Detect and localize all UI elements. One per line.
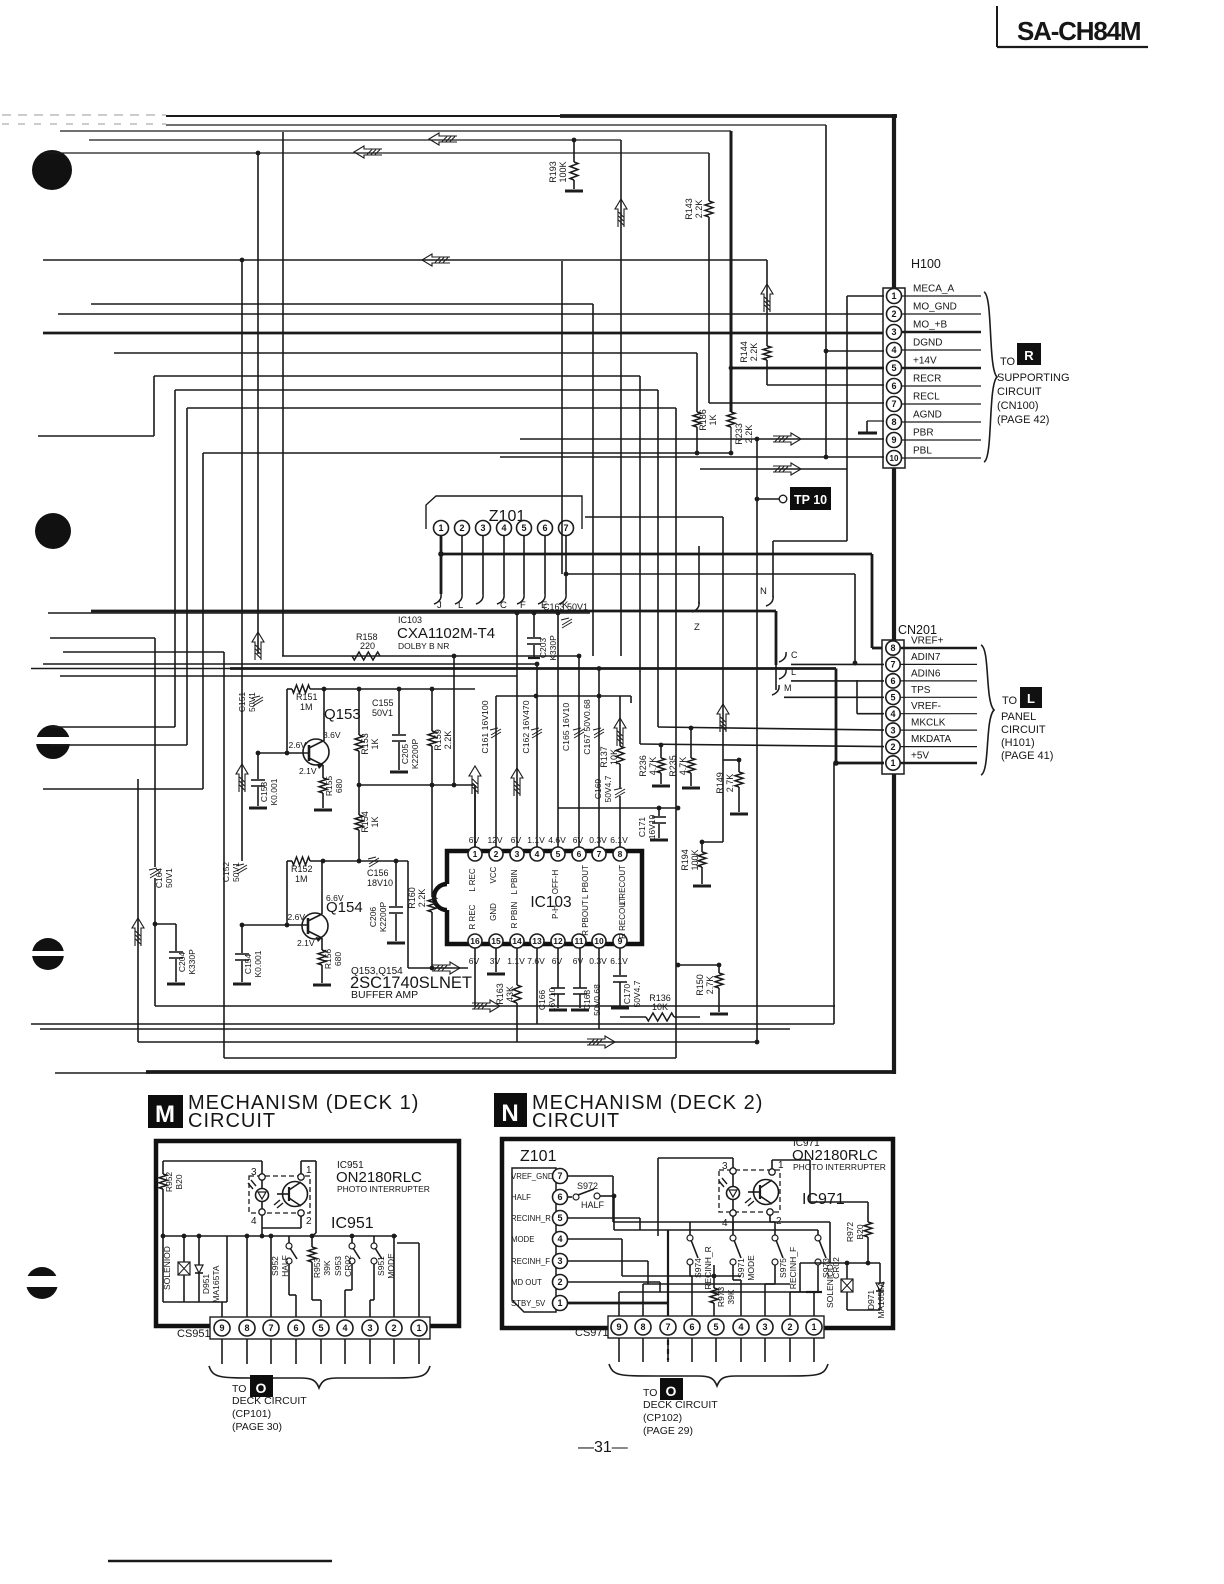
svg-text:43K: 43K (505, 986, 515, 1002)
resistor R953 (308, 1234, 332, 1317)
wire DGND feed (824, 349, 884, 354)
svg-text:PBL: PBL (913, 446, 932, 457)
svg-text:1.1V: 1.1V (507, 956, 525, 966)
section label M (148, 1092, 419, 1132)
svg-text:7.6V: 7.6V (527, 956, 545, 966)
IC103 pin 4 (527, 835, 545, 861)
resistor R153 (355, 689, 380, 787)
svg-text:IC103: IC103 (398, 615, 422, 625)
CS971 pin 6 (684, 1319, 700, 1362)
svg-text:R152: R152 (291, 864, 313, 874)
resistor (687, 758, 695, 773)
ground (233, 983, 251, 986)
signal arrow (773, 433, 801, 445)
H100 pin 7 (887, 392, 982, 412)
svg-text:RECINH_R: RECINH_R (703, 1246, 713, 1289)
svg-text:TPS: TPS (911, 685, 931, 696)
svg-text:1: 1 (557, 1298, 562, 1308)
svg-text:S951: S951 (376, 1256, 386, 1276)
capacitor C152 (221, 862, 247, 883)
IC971 pin 1 (769, 1160, 810, 1202)
resistor (710, 1288, 718, 1303)
capacitor C205 (392, 689, 420, 770)
resistor (864, 1222, 872, 1237)
resistor R150 (676, 963, 723, 1012)
svg-text:3.6V: 3.6V (323, 730, 341, 740)
svg-text:IC971: IC971 (802, 1191, 845, 1208)
ground (565, 190, 583, 193)
wire hook (692, 602, 699, 612)
H100 pin 9 (887, 428, 982, 448)
svg-text:B20: B20 (174, 1174, 184, 1189)
polarity mark (236, 864, 247, 874)
capacitor (652, 817, 666, 823)
svg-text:RECINH_R: RECINH_R (511, 1214, 551, 1223)
Z101 pin 7 (559, 521, 574, 536)
signal arrow (469, 766, 481, 794)
solenoid SOLENIOD (N) (825, 1263, 853, 1310)
svg-text:10K: 10K (609, 749, 619, 765)
svg-text:2: 2 (459, 523, 464, 533)
svg-text:SA-CH84M: SA-CH84M (1017, 16, 1140, 46)
svg-text:MODE: MODE (511, 1235, 534, 1244)
wire hook (779, 652, 786, 662)
label TO L PANEL CIRCUIT (1001, 687, 1053, 762)
svg-text:3: 3 (557, 1256, 562, 1266)
registration mark 1 (32, 150, 72, 190)
section label N (494, 1092, 763, 1132)
svg-text:7: 7 (557, 1171, 562, 1181)
IC103 pin 1 (468, 835, 482, 861)
svg-text:R RECOUT: R RECOUT (618, 897, 627, 939)
polarity mark (149, 868, 160, 878)
resistor R158 (352, 632, 380, 660)
svg-text:3: 3 (251, 1167, 257, 1178)
svg-text:16: 16 (470, 936, 480, 946)
svg-text:S953: S953 (333, 1256, 343, 1276)
svg-text:TP 10: TP 10 (794, 493, 827, 507)
label TO R SUPPORTING CIRCUIT (997, 343, 1070, 426)
CS951 pin 1 (411, 1320, 427, 1364)
signal arrow (761, 284, 773, 312)
brace CS951 (209, 1366, 430, 1388)
Z101 pin 5 (517, 521, 532, 536)
svg-text:CXA1102M-T4: CXA1102M-T4 (397, 625, 495, 642)
wire MKCLK feed (658, 726, 884, 731)
svg-text:1M: 1M (295, 874, 308, 884)
svg-text:R952: R952 (164, 1172, 174, 1193)
phototransistor inside IC951 (274, 1182, 308, 1209)
IC971 pin 4 (722, 1210, 736, 1230)
resistor (513, 985, 521, 1003)
diode D951 (195, 1236, 221, 1303)
svg-text:1: 1 (891, 291, 896, 301)
svg-text:4: 4 (890, 709, 895, 719)
svg-text:K330P: K330P (548, 635, 558, 661)
ground (313, 984, 331, 987)
svg-text:680: 680 (333, 952, 343, 966)
svg-text:10K: 10K (652, 1002, 668, 1012)
wire STBY bold (568, 1230, 668, 1360)
svg-text:+5V: +5V (911, 751, 929, 762)
CN201 pin 6 (886, 668, 977, 688)
svg-text:MD OUT: MD OUT (511, 1278, 542, 1287)
wire hook (497, 594, 504, 604)
svg-text:5: 5 (713, 1322, 718, 1332)
wire MECA_A feed (773, 296, 884, 597)
resistor (698, 852, 706, 867)
wire IC103 bottom pin leads (475, 948, 620, 1042)
Z101(bottom) pin 7 (511, 1169, 568, 1184)
svg-text:L: L (1027, 691, 1035, 706)
svg-text:MA165TA: MA165TA (211, 1265, 221, 1302)
polarity mark (614, 788, 625, 798)
svg-text:C: C (791, 650, 798, 660)
ground (710, 1013, 728, 1016)
wire hook (455, 594, 462, 604)
CN201 pin 8 (886, 636, 977, 656)
svg-text:DECK CIRCUIT: DECK CIRCUIT (643, 1399, 718, 1411)
capacitor (551, 988, 565, 994)
IC103 pin 5 (548, 835, 566, 861)
svg-text:VREF-: VREF- (911, 701, 941, 712)
svg-text:L: L (458, 600, 463, 611)
CN201 pin 5 (886, 685, 977, 705)
svg-text:7: 7 (890, 660, 895, 670)
svg-text:4: 4 (535, 849, 540, 859)
capacitor C153 (251, 753, 279, 806)
IC103 pin 13 (527, 934, 545, 966)
svg-text:6.6V: 6.6V (326, 893, 344, 903)
wire Z101 pin 6 stub (538, 536, 547, 611)
signal arrow (511, 768, 523, 796)
IC951 pin 4 (251, 1209, 265, 1236)
H100 pin 8 (887, 410, 982, 430)
svg-text:C151: C151 (237, 692, 247, 713)
label IC103 CXA1102M-T4 (397, 615, 495, 651)
signal arrow (717, 704, 729, 732)
svg-text:C154: C154 (243, 954, 253, 975)
signal arrow (432, 962, 460, 974)
svg-text:AGND: AGND (913, 410, 942, 421)
ground (611, 1007, 629, 1010)
CS971 pin 3 (757, 1319, 773, 1362)
IC971 pin 2 (767, 1209, 830, 1227)
capacitor C154 (235, 925, 263, 982)
svg-text:R149: R149 (715, 772, 725, 794)
IC103 pin 11 (572, 934, 586, 966)
svg-text:3: 3 (762, 1322, 767, 1332)
svg-text:4.7K: 4.7K (678, 757, 688, 776)
svg-text:R153: R153 (360, 733, 370, 755)
resistor R952 (159, 1161, 184, 1302)
svg-text:P-H: P-H (551, 905, 560, 919)
svg-text:2.2K: 2.2K (443, 731, 453, 750)
svg-text:11: 11 (575, 936, 584, 946)
capacitor C164 (50, 638, 174, 1006)
svg-text:VREF_GND: VREF_GND (511, 1172, 554, 1181)
frame M circuit (156, 1141, 459, 1326)
svg-text:K330P: K330P (187, 949, 197, 975)
svg-text:D951: D951 (201, 1274, 211, 1295)
IC103 pin 7 (589, 835, 607, 861)
wire PBR (520, 437, 884, 442)
svg-text:50V1: 50V1 (164, 868, 174, 888)
svg-text:B20: B20 (855, 1224, 865, 1239)
switch S972 HALF (568, 1181, 616, 1210)
resistor (428, 897, 436, 912)
svg-text:IC951: IC951 (331, 1215, 374, 1232)
connector CS971 (575, 1316, 824, 1339)
CS951 pin 2 (386, 1320, 402, 1364)
svg-text:PHOTO INTERRUPTER: PHOTO INTERRUPTER (337, 1184, 430, 1194)
wire hook (779, 669, 786, 679)
signal arrow (587, 1036, 615, 1048)
wire Z101 pin 2 stub (455, 536, 463, 611)
wire hook (766, 596, 773, 606)
capacitor C168 (573, 984, 602, 1016)
svg-text:50V0.68: 50V0.68 (592, 984, 602, 1016)
switch S951 MODE (370, 1236, 396, 1317)
wire y=696 rail (496, 694, 631, 703)
svg-text:R PBOUT: R PBOUT (581, 900, 590, 936)
svg-text:HALF: HALF (581, 1200, 605, 1210)
capacitor C165 (561, 703, 584, 751)
capacitor C166 (537, 987, 565, 1012)
wire step bus (38, 304, 884, 1058)
wire R151 left leg (285, 689, 290, 755)
switch S974 RECINH_R (687, 1222, 713, 1316)
svg-text:MO_+B: MO_+B (913, 320, 948, 331)
signal arrow (354, 146, 382, 158)
svg-text:Z101: Z101 (520, 1148, 557, 1165)
svg-text:S971: S971 (736, 1258, 746, 1278)
signal arrow (236, 764, 248, 792)
svg-text:2.2K: 2.2K (694, 200, 704, 219)
svg-text:5: 5 (521, 523, 526, 533)
wire mid bus cluster (43, 517, 723, 676)
ground (249, 807, 267, 810)
connector CS951 (177, 1317, 430, 1340)
svg-text:220: 220 (360, 641, 375, 651)
wire N routing (568, 1176, 818, 1316)
svg-text:RECINH_F: RECINH_F (511, 1257, 550, 1266)
polarity mark (561, 618, 572, 628)
svg-text:MKCLK: MKCLK (911, 718, 946, 729)
svg-text:(PAGE 29): (PAGE 29) (643, 1425, 693, 1437)
transistor Q153 (256, 706, 361, 776)
connector Z101 (bottom) (512, 1148, 557, 1312)
CS971 pin 8 (635, 1319, 651, 1362)
svg-text:S972: S972 (577, 1181, 598, 1191)
svg-text:8: 8 (891, 417, 896, 427)
polarity mark (368, 857, 379, 867)
arrow x=138 (137, 779, 139, 1042)
svg-text:OFF-H: OFF-H (551, 870, 560, 895)
svg-text:1: 1 (811, 1322, 816, 1332)
CS971 pin 5 (708, 1319, 724, 1362)
svg-text:R REC: R REC (468, 904, 477, 929)
Z101 pin 6 (538, 521, 553, 536)
IC951 pin 2 (262, 1210, 312, 1228)
CN201 pin 1 (886, 751, 977, 771)
ground (693, 885, 711, 888)
photo interrupter IC971 dashed box (719, 1170, 780, 1212)
svg-text:6V: 6V (573, 956, 584, 966)
svg-text:6: 6 (890, 676, 895, 686)
svg-text:K0.001: K0.001 (253, 950, 263, 977)
svg-text:SUPPORTING: SUPPORTING (997, 372, 1070, 384)
resistor R163 (495, 983, 515, 1005)
svg-text:PBR: PBR (913, 428, 934, 439)
svg-text:50V4.7: 50V4.7 (603, 775, 613, 802)
H100 pin 10 (887, 446, 982, 466)
svg-text:R194: R194 (680, 849, 690, 871)
svg-text:TO: TO (643, 1387, 657, 1399)
svg-text:HALF: HALF (511, 1193, 531, 1202)
resistor (570, 162, 578, 180)
wire RECL feed (709, 402, 884, 404)
svg-text:R235: R235 (668, 755, 678, 777)
svg-text:0.3V: 0.3V (589, 956, 607, 966)
svg-text:K2200P: K2200P (410, 739, 420, 770)
H100 pin 3 (887, 320, 982, 340)
wire Z101 pin 3 stub (476, 536, 483, 604)
svg-text:(CP102): (CP102) (643, 1412, 682, 1424)
svg-text:CR02: CR02 (343, 1255, 353, 1277)
wire vertical bus x=621 (620, 140, 622, 656)
ground (549, 1009, 567, 1012)
svg-text:8: 8 (890, 643, 895, 653)
svg-text:8: 8 (640, 1322, 645, 1332)
wire CS951 pin feeds (222, 1234, 419, 1317)
signal arrow (422, 254, 450, 266)
svg-text:6.1V: 6.1V (610, 956, 628, 966)
registration mark 3 (30, 725, 76, 759)
Z101 pin 2 (455, 521, 470, 536)
svg-text:C165 16V10: C165 16V10 (561, 703, 571, 751)
svg-text:C166: C166 (537, 990, 547, 1011)
signal arrow (252, 632, 264, 660)
wire Q153 collector (323, 689, 325, 741)
svg-text:1: 1 (890, 758, 895, 768)
svg-text:CIRCUIT: CIRCUIT (1001, 724, 1046, 736)
registration mark 5 (20, 1267, 64, 1299)
svg-text:2.6V: 2.6V (289, 740, 307, 750)
svg-text:1K: 1K (708, 414, 718, 425)
resistor (705, 201, 713, 217)
solenoid SOLENIOD (162, 1236, 190, 1302)
CS951 pin 4 (337, 1320, 353, 1364)
svg-text:R150: R150 (695, 974, 705, 996)
transistor Q154 (240, 893, 363, 948)
resistor R236 (638, 745, 665, 784)
wire vertical bus x=258 (256, 151, 261, 654)
capacitor (527, 638, 541, 644)
capacitor (613, 976, 627, 982)
svg-text:3: 3 (891, 327, 896, 337)
ground (314, 809, 332, 812)
svg-text:5: 5 (557, 1213, 562, 1223)
resistor R186 (693, 353, 718, 453)
resistor (355, 815, 363, 830)
svg-text:L PBIN: L PBIN (510, 869, 519, 894)
wire R152 left leg (285, 861, 290, 927)
capacitor (169, 952, 183, 958)
LED inside IC951 (248, 1179, 269, 1210)
H100 pin 6 (887, 374, 982, 394)
svg-text:C152: C152 (221, 862, 231, 883)
IC103 pin 15 (489, 934, 503, 966)
resistor (292, 685, 310, 693)
svg-text:4: 4 (891, 345, 896, 355)
connector H100 (883, 257, 941, 468)
H100 pin 1 (887, 284, 982, 304)
svg-text:TO: TO (1000, 356, 1016, 368)
svg-text:C156: C156 (367, 868, 389, 878)
svg-text:C205: C205 (400, 744, 410, 765)
H100 pin 5 (887, 356, 982, 376)
polarity mark (593, 728, 604, 738)
svg-text:C161 16V100: C161 16V100 (480, 700, 490, 753)
ground at AGND (858, 421, 884, 433)
svg-text:CIRCUIT: CIRCUIT (188, 1110, 276, 1132)
svg-text:N: N (501, 1100, 518, 1127)
svg-text:R186: R186 (698, 409, 708, 431)
wire y=968 (408, 861, 468, 968)
capacitor C167 (582, 699, 604, 755)
switch S973 CR02 (790, 1230, 841, 1316)
resistor (727, 412, 735, 427)
wire top bus (2, 115, 897, 153)
svg-text:2.1V: 2.1V (297, 938, 315, 948)
svg-text:2: 2 (557, 1277, 562, 1287)
svg-text:6: 6 (557, 1192, 562, 1202)
svg-text:100K: 100K (558, 161, 568, 182)
svg-text:BUFFER AMP: BUFFER AMP (351, 989, 418, 1001)
svg-text:F: F (520, 600, 526, 611)
resistor R156 (318, 938, 343, 983)
brace H100 (984, 292, 997, 462)
svg-text:VREF+: VREF+ (911, 636, 944, 647)
switch S952 HALF (270, 1236, 297, 1317)
IC103 pin 16 (468, 934, 482, 966)
resistor (657, 758, 665, 773)
svg-text:4: 4 (501, 523, 506, 533)
svg-text:C168: C168 (582, 990, 592, 1011)
resistor R154 (355, 785, 380, 863)
svg-text:4: 4 (251, 1216, 257, 1227)
title box SA-CH84M (997, 6, 1148, 47)
svg-text:3: 3 (367, 1323, 372, 1333)
svg-text:5: 5 (891, 363, 896, 373)
wire solenoid bus N (800, 1222, 880, 1292)
wire hook (559, 594, 566, 604)
svg-text:(PAGE 42): (PAGE 42) (997, 414, 1049, 426)
svg-text:680: 680 (334, 779, 344, 793)
resistor R194 (680, 840, 723, 884)
svg-text:D971: D971 (866, 1290, 876, 1311)
CS951 pin 7 (263, 1320, 279, 1364)
Z101(bottom) pin 3 (511, 1254, 568, 1269)
ground T (N section) (806, 1292, 822, 1316)
svg-text:1K: 1K (370, 738, 380, 749)
svg-text:9: 9 (219, 1323, 224, 1333)
resistor (715, 973, 723, 988)
svg-text:3: 3 (890, 725, 895, 735)
wire Z101 pin 1 stub (434, 536, 444, 611)
label 2SC1740SLNET BUFFER AMP (350, 966, 472, 1001)
